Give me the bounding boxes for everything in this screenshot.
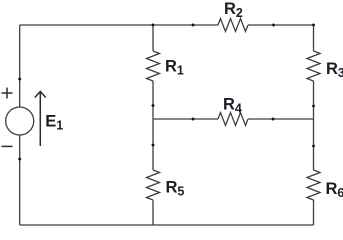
svg-text:R6: R6 <box>326 180 343 200</box>
resistor R2 <box>218 19 248 32</box>
wire bottom <box>20 224 314 226</box>
resistor R5 <box>147 170 160 200</box>
pin dot E1 bottom <box>18 157 22 161</box>
wire middle vertical upper <box>152 25 154 51</box>
resistor R1 <box>147 51 160 81</box>
voltage source E1 <box>6 107 34 135</box>
pin dot R4 right <box>271 117 275 121</box>
pin dot E1 top <box>18 77 22 81</box>
wire middle vertical lower <box>152 200 154 225</box>
wire left lower <box>19 135 21 225</box>
svg-text:R4: R4 <box>223 96 242 116</box>
pin dot R3 bottom <box>312 104 316 108</box>
pin dot R4 left <box>191 117 195 121</box>
svg-text:E1: E1 <box>45 112 63 132</box>
pin dot R6 top <box>312 144 316 148</box>
pin dot R1 top <box>151 23 155 27</box>
E1 polarity minus <box>2 145 13 147</box>
svg-text:R2: R2 <box>224 0 243 20</box>
wire middle horizontal left segment <box>153 118 218 120</box>
svg-text:R3: R3 <box>326 60 343 80</box>
wire right upper <box>313 25 315 51</box>
E1 current arrow <box>35 92 46 147</box>
resistor R6 <box>307 170 320 200</box>
resistor R3 <box>307 51 320 81</box>
pin dot R1 bottom <box>151 104 155 108</box>
wire top right segment <box>248 24 314 26</box>
wire right middle <box>313 81 315 170</box>
svg-text:R5: R5 <box>166 179 185 199</box>
wire top left segment <box>20 24 218 26</box>
pin dot R2 left <box>191 23 195 27</box>
wire middle horizontal right segment <box>248 118 314 120</box>
pin dot R2 right <box>272 23 276 27</box>
wire left upper <box>19 25 21 107</box>
E1 polarity plus <box>2 88 13 99</box>
pin dot R3 top <box>312 23 316 27</box>
pin dot R5 top <box>151 143 155 147</box>
svg-text:R1: R1 <box>165 58 184 78</box>
resistor R4 <box>218 113 248 126</box>
wire middle vertical center <box>152 81 154 170</box>
wire right lower <box>313 200 315 225</box>
